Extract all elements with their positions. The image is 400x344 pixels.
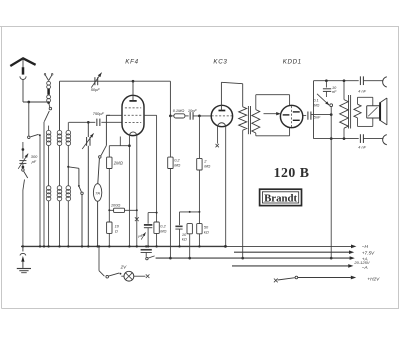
svg-text:MΩ: MΩ: [160, 229, 166, 234]
svg-text:2MΩ: 2MΩ: [113, 161, 124, 166]
svg-text:MΩ: MΩ: [313, 104, 319, 108]
svg-text:MΩ: MΩ: [174, 162, 180, 167]
svg-text:+H2V: +H2V: [367, 276, 380, 281]
svg-text:−A: −A: [362, 265, 368, 270]
svg-text:KC3: KC3: [213, 58, 227, 65]
svg-text:100Ω: 100Ω: [111, 202, 120, 207]
svg-text:2V: 2V: [120, 264, 128, 269]
svg-text:10nF: 10nF: [188, 108, 197, 113]
svg-text:pF: pF: [31, 159, 37, 164]
svg-text:nF: nF: [332, 90, 337, 94]
svg-text:4 nF: 4 nF: [358, 145, 366, 149]
svg-text:0.1: 0.1: [313, 98, 318, 102]
svg-text:kΩ: kΩ: [204, 229, 209, 234]
svg-text:5nF: 5nF: [314, 116, 321, 120]
svg-text:KDD1: KDD1: [283, 58, 302, 65]
svg-text:kΩ: kΩ: [182, 236, 187, 241]
svg-text:7A: 7A: [95, 191, 100, 196]
svg-text:−H: −H: [362, 244, 369, 249]
svg-text:+7.5V: +7.5V: [362, 250, 375, 255]
svg-text:0.1MΩ: 0.1MΩ: [173, 108, 185, 113]
svg-text:750pF: 750pF: [93, 111, 105, 116]
svg-text:KF4: KF4: [125, 58, 138, 65]
svg-text:MΩ: MΩ: [204, 163, 210, 168]
svg-text:Ω: Ω: [115, 229, 118, 234]
svg-text:120 B: 120 B: [274, 165, 310, 180]
svg-text:50pF: 50pF: [91, 87, 101, 92]
svg-text:Brandt: Brandt: [264, 193, 297, 205]
svg-text:4 nF: 4 nF: [358, 89, 366, 93]
